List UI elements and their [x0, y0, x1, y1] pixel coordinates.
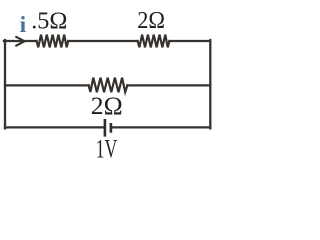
svg-text:.5Ω: .5Ω — [31, 7, 67, 34]
svg-text:1V: 1V — [96, 134, 117, 164]
svg-text:2Ω: 2Ω — [137, 7, 165, 34]
svg-text:i: i — [20, 12, 27, 38]
svg-text:2Ω: 2Ω — [91, 92, 123, 120]
